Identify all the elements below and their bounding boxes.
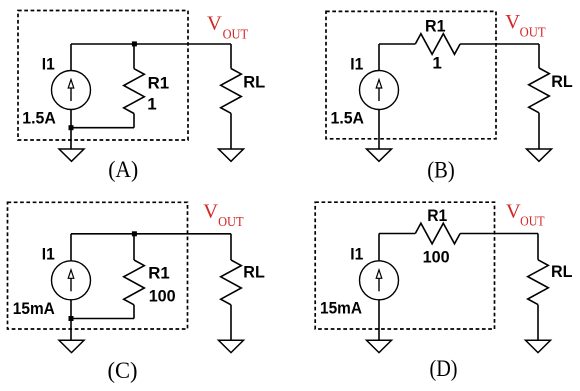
wire to ground A — [70, 128, 72, 149]
current source I1 (C) — [52, 261, 91, 300]
svg-text:(C): (C) — [108, 358, 138, 383]
dashed box D — [315, 202, 494, 329]
svg-text:V: V — [203, 200, 218, 222]
svg-text:OUT: OUT — [520, 25, 546, 40]
node Vout junction C — [132, 231, 137, 236]
node bottom junction A — [69, 125, 74, 130]
ground (I1, D) — [367, 340, 392, 352]
ground (RL, A) — [219, 149, 244, 161]
svg-text:100: 100 — [149, 287, 176, 306]
svg-text:OUT: OUT — [218, 215, 244, 230]
wire top rail A — [71, 43, 231, 45]
wire RL bottom C — [230, 305, 232, 341]
wire RL top D — [537, 234, 539, 260]
svg-text:(B): (B) — [427, 157, 455, 182]
svg-text:V: V — [506, 201, 521, 223]
wire I1 bottom B — [378, 110, 380, 150]
svg-text:R1: R1 — [427, 206, 447, 225]
dashed box A — [18, 11, 188, 141]
wire I1 top A — [70, 44, 72, 71]
svg-text:R1: R1 — [148, 73, 170, 92]
svg-text:RL: RL — [243, 72, 265, 91]
svg-text:RL: RL — [243, 262, 264, 281]
current source I1 (B) — [360, 71, 399, 110]
resistor R1 (D) — [415, 223, 460, 244]
resistor RL (D) — [528, 260, 549, 305]
ground (I1, C) — [59, 340, 84, 352]
resistor R1 (A) — [124, 69, 145, 114]
wire top rail C — [71, 233, 231, 235]
svg-text:1.5A: 1.5A — [331, 108, 365, 127]
wire RL top B — [538, 44, 540, 68]
wire RL top C — [230, 234, 232, 260]
ground (I1, A) — [59, 149, 84, 161]
wire R1 top A — [133, 44, 135, 69]
svg-text:100: 100 — [423, 247, 450, 266]
svg-text:OUT: OUT — [520, 214, 545, 229]
svg-text:I1: I1 — [42, 245, 55, 264]
dashed box C — [8, 202, 188, 329]
wire R1 top C — [133, 234, 135, 260]
wire I1 bottom C — [70, 300, 72, 319]
svg-text:(A): (A) — [108, 157, 138, 182]
wire to ground C — [70, 319, 72, 341]
ground (RL, C) — [219, 340, 244, 352]
node Vout junction A — [132, 41, 137, 46]
svg-text:1: 1 — [147, 95, 156, 114]
resistor RL (B) — [529, 68, 550, 113]
ground (RL, D) — [526, 340, 551, 352]
wire rail left B — [379, 43, 415, 45]
wire I1 bottom A — [70, 110, 72, 129]
svg-text:R1: R1 — [148, 263, 170, 282]
svg-text:I1: I1 — [42, 55, 55, 74]
ground (I1, B) — [367, 149, 392, 161]
resistor RL (A) — [221, 69, 242, 114]
wire rail right D — [460, 233, 538, 235]
wire bottom loop A — [71, 127, 134, 129]
wire RL bottom B — [538, 113, 540, 149]
node bottom junction C — [69, 316, 74, 321]
wire RL bottom D — [537, 305, 539, 341]
wire RL top A — [230, 44, 232, 69]
svg-text:OUT: OUT — [223, 27, 249, 42]
current source I1 (D) — [360, 261, 399, 300]
wire bottom loop C — [71, 318, 134, 320]
resistor R1 (C) — [124, 260, 145, 305]
svg-text:I1: I1 — [350, 245, 363, 264]
wire I1 top C — [70, 234, 72, 261]
ground (RL, B) — [527, 149, 552, 161]
svg-text:15mA: 15mA — [320, 299, 362, 318]
wire RL bottom A — [230, 113, 232, 149]
current source I1 (A) — [52, 71, 91, 110]
resistor RL (C) — [221, 260, 242, 305]
wire rail left D — [379, 233, 415, 235]
wire I1 bottom D — [378, 300, 380, 341]
svg-text:RL: RL — [551, 262, 573, 281]
svg-text:1.5A: 1.5A — [22, 108, 56, 127]
svg-text:V: V — [207, 13, 222, 35]
dashed box B — [326, 11, 496, 138]
svg-text:I1: I1 — [350, 55, 363, 74]
svg-text:1: 1 — [432, 54, 441, 73]
svg-text:15mA: 15mA — [13, 299, 55, 318]
wire I1 top B — [378, 44, 380, 71]
resistor R1 (B) — [415, 34, 460, 55]
wire rail right B — [460, 43, 539, 45]
svg-text:(D): (D) — [430, 356, 458, 381]
svg-text:RL: RL — [551, 72, 573, 91]
wire I1 top D — [378, 234, 380, 262]
svg-text:V: V — [505, 11, 520, 33]
svg-text:R1: R1 — [425, 17, 446, 36]
